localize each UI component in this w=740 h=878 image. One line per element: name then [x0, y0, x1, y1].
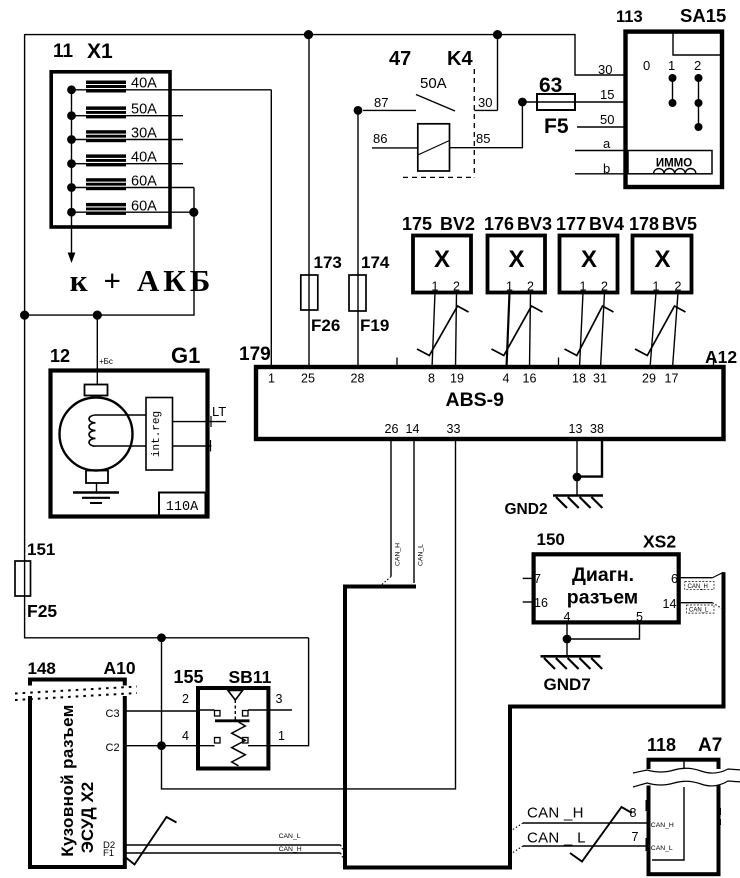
svg-text:2: 2	[182, 692, 189, 706]
svg-text:4: 4	[564, 610, 571, 624]
svg-text:SA15: SA15	[680, 5, 726, 26]
svg-text:ABS-9: ABS-9	[446, 389, 505, 411]
svg-text:1: 1	[668, 58, 675, 73]
svg-text:28: 28	[351, 372, 365, 386]
svg-text:0: 0	[643, 58, 650, 73]
svg-text:155: 155	[174, 667, 204, 687]
svg-text:1: 1	[653, 280, 660, 294]
svg-text:+Бc: +Бc	[99, 357, 113, 366]
svg-text:C3: C3	[106, 708, 120, 720]
svg-text:40A: 40A	[131, 76, 157, 92]
svg-text:47: 47	[389, 48, 411, 70]
svg-text:ИММО: ИММО	[656, 158, 692, 170]
svg-text:7: 7	[632, 830, 639, 844]
svg-text:30: 30	[598, 62, 612, 77]
svg-text:CAN_L: CAN_L	[689, 608, 709, 614]
svg-text:6: 6	[671, 572, 678, 586]
svg-text:2: 2	[527, 280, 534, 294]
svg-text:1: 1	[278, 729, 285, 743]
svg-text:CAN_H: CAN_H	[651, 822, 674, 829]
svg-text:BV4: BV4	[589, 214, 624, 234]
svg-text:86: 86	[373, 131, 387, 146]
svg-text:110A: 110A	[166, 500, 199, 515]
svg-text:50A: 50A	[420, 75, 447, 92]
svg-text:175: 175	[402, 214, 432, 234]
svg-text:33: 33	[447, 422, 461, 436]
svg-text:38: 38	[590, 422, 604, 436]
svg-text:F1: F1	[103, 848, 114, 859]
svg-text:40A: 40A	[131, 150, 157, 166]
svg-text:C2: C2	[106, 742, 120, 754]
svg-text:ЭСУД Х2: ЭСУД Х2	[78, 782, 97, 854]
svg-text:F26: F26	[311, 316, 340, 335]
svg-text:2: 2	[694, 58, 701, 73]
svg-text:176: 176	[484, 214, 514, 234]
svg-text:148: 148	[28, 659, 56, 678]
svg-text:F19: F19	[360, 316, 389, 335]
svg-text:2: 2	[601, 280, 608, 294]
svg-text:BV3: BV3	[517, 214, 552, 234]
svg-text:разъем: разъем	[567, 587, 638, 609]
svg-text:A10: A10	[104, 658, 136, 678]
svg-text:151: 151	[27, 540, 55, 559]
svg-text:11: 11	[53, 41, 74, 62]
svg-text:14: 14	[663, 597, 677, 611]
svg-text:31: 31	[593, 372, 607, 386]
svg-text:a: a	[603, 136, 611, 151]
svg-text:Кузовной разъем: Кузовной разъем	[58, 704, 77, 857]
svg-text:15: 15	[600, 87, 614, 102]
svg-text:87: 87	[374, 95, 388, 110]
svg-text:X: X	[581, 246, 597, 273]
svg-text:int.reg: int.reg	[151, 411, 163, 457]
svg-text:177: 177	[556, 214, 586, 234]
svg-text:GND7: GND7	[544, 675, 591, 694]
svg-text:16: 16	[523, 372, 537, 386]
svg-text:18: 18	[572, 372, 586, 386]
svg-text:5: 5	[636, 610, 643, 624]
svg-text:178: 178	[629, 214, 659, 234]
svg-text:X: X	[434, 246, 450, 273]
svg-text:LT: LT	[212, 404, 226, 419]
svg-text:60A: 60A	[131, 199, 157, 215]
svg-text:50: 50	[600, 112, 614, 127]
svg-text:CAN_H: CAN_H	[279, 846, 302, 853]
svg-text:14: 14	[406, 422, 420, 436]
svg-text:CAN_L: CAN_L	[418, 544, 425, 566]
svg-text:1: 1	[506, 280, 513, 294]
svg-text:30: 30	[478, 95, 492, 110]
svg-text:4: 4	[182, 729, 189, 743]
svg-text:50A: 50A	[131, 102, 157, 118]
svg-text:1: 1	[580, 280, 587, 294]
svg-text:CAN_L: CAN_L	[279, 833, 301, 840]
svg-text:8: 8	[428, 372, 435, 386]
svg-text:SB11: SB11	[229, 667, 272, 687]
svg-text:179: 179	[239, 344, 271, 365]
svg-text:2: 2	[453, 280, 460, 294]
svg-text:174: 174	[361, 253, 390, 272]
svg-text:17: 17	[665, 372, 679, 386]
svg-text:A7: A7	[698, 735, 722, 756]
svg-text:CAN_H: CAN_H	[688, 584, 708, 590]
svg-text:GND2: GND2	[505, 501, 548, 518]
svg-text:A12: A12	[705, 347, 737, 367]
svg-text:CAN_H: CAN_H	[395, 543, 402, 566]
svg-text:F25: F25	[27, 601, 57, 621]
svg-text:Диагн.: Диагн.	[572, 564, 634, 586]
svg-text:G1: G1	[171, 343, 200, 368]
svg-text:29: 29	[642, 372, 656, 386]
svg-text:X1: X1	[87, 40, 113, 63]
svg-text:к + АКБ: к + АКБ	[70, 263, 214, 298]
svg-text:X: X	[508, 246, 524, 273]
svg-text:63: 63	[539, 74, 562, 97]
svg-text:25: 25	[301, 372, 315, 386]
svg-text:8: 8	[630, 806, 637, 820]
svg-text:BV5: BV5	[662, 214, 697, 234]
svg-text:XS2: XS2	[643, 532, 676, 552]
svg-text:CAN_L: CAN_L	[651, 845, 673, 852]
svg-text:1: 1	[268, 372, 275, 386]
svg-text:b: b	[603, 161, 610, 176]
svg-text:BV2: BV2	[440, 214, 475, 234]
svg-text:30A: 30A	[131, 126, 157, 142]
svg-text:F5: F5	[544, 115, 569, 138]
svg-text:150: 150	[537, 530, 565, 549]
svg-text:CAN _H: CAN _H	[527, 805, 584, 822]
svg-text:85: 85	[476, 131, 490, 146]
svg-text:173: 173	[314, 253, 342, 272]
svg-text:60A: 60A	[131, 174, 157, 190]
svg-text:13: 13	[569, 422, 583, 436]
svg-text:113: 113	[616, 8, 643, 26]
svg-text:3: 3	[276, 692, 283, 706]
svg-text:118: 118	[647, 735, 676, 755]
svg-text:K4: K4	[447, 48, 473, 70]
svg-text:26: 26	[385, 422, 399, 436]
svg-text:4: 4	[503, 372, 510, 386]
svg-text:19: 19	[450, 372, 464, 386]
svg-text:16: 16	[534, 596, 548, 610]
svg-text:1: 1	[432, 280, 439, 294]
svg-text:CAN _ L: CAN _ L	[527, 830, 586, 847]
svg-text:12: 12	[50, 346, 70, 366]
svg-text:X: X	[654, 246, 670, 273]
svg-text:7: 7	[534, 572, 541, 586]
svg-text:2: 2	[675, 280, 682, 294]
